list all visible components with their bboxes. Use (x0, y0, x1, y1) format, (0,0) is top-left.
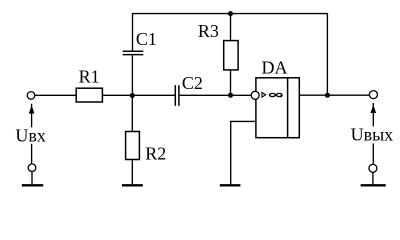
svg-text:R2: R2 (145, 143, 166, 163)
node junction J1 (130, 94, 134, 98)
op-amp infinity symbol (270, 93, 276, 96)
terminal output bottom circle (369, 164, 377, 172)
terminal output top circle (369, 91, 377, 99)
terminal input top circle (27, 92, 35, 100)
wire C2 to op-amp input (180, 94, 252, 96)
ground G4 (361, 184, 386, 186)
capacitor C2 (174, 85, 176, 106)
wire top feedback (133, 14, 328, 96)
op-amp input inversion circle (251, 91, 259, 99)
wire R2 to ground (131, 160, 133, 186)
svg-text:C2: C2 (182, 73, 203, 93)
op-amp lower input wire to ground (231, 121, 256, 185)
wire J1 to R2 (131, 95, 133, 131)
annotation line Uvyx upper (372, 103, 374, 126)
wire input to R1 (35, 94, 76, 96)
annotation line Uvx upper (31, 104, 33, 128)
arrow Uvyx (371, 106, 375, 112)
node junction J3 (229, 93, 233, 97)
annotation line Uvx lower (31, 144, 33, 164)
wire R3 to J3 (230, 70, 232, 95)
svg-text:R1: R1 (79, 66, 100, 86)
resistor R3 (224, 41, 238, 70)
resistor R2 (126, 132, 140, 160)
node junction top (229, 12, 233, 16)
svg-text:Uвх: Uвх (15, 125, 46, 145)
op-amp DA body (256, 78, 299, 138)
svg-text:DA: DA (262, 57, 288, 77)
svg-text:C1: C1 (136, 29, 157, 49)
wire R1 to C2 (102, 94, 175, 96)
op-amp gain triangle (262, 93, 266, 98)
op-amp infinity right blob (280, 95, 282, 97)
terminal input bottom circle (28, 164, 36, 172)
wire to ground right (372, 172, 374, 185)
op-amp inner line (287, 78, 289, 138)
svg-text:R3: R3 (198, 21, 219, 41)
wire top to R3 (230, 14, 232, 41)
resistor R1 (76, 88, 102, 102)
node junction J2 (326, 93, 330, 97)
svg-text:Uвых: Uвых (351, 125, 394, 145)
wire C1 to J1 (131, 55, 133, 95)
ground G2 (122, 184, 143, 186)
arrow Uvx (29, 107, 33, 113)
capacitor C1 (123, 50, 144, 52)
ground G3 (220, 184, 241, 186)
ground G1 (22, 184, 43, 186)
wire op-amp output (299, 94, 369, 96)
wire to ground left (31, 172, 33, 186)
annotation line Uvyx lower (372, 144, 374, 164)
